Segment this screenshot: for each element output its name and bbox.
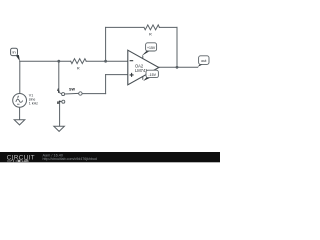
svg-text:-15V: -15V bbox=[148, 73, 156, 77]
switch SW bbox=[58, 91, 82, 103]
out terminal flag bbox=[198, 56, 209, 67]
wire: feedback right vertical bbox=[176, 27, 178, 67]
wire: op-amp output to out flag bbox=[159, 66, 198, 68]
wire: op-amp + input left bbox=[106, 74, 128, 76]
CircuitLab logo bbox=[7, 155, 35, 164]
watermark bar bbox=[0, 152, 220, 162]
wire: feedback top right segment bbox=[159, 26, 177, 28]
svg-text:out: out bbox=[201, 59, 207, 63]
svg-text:R: R bbox=[77, 66, 80, 70]
wire: feedback top left segment bbox=[106, 26, 144, 28]
junction dot: switch A node on input wire bbox=[57, 60, 60, 63]
svg-text:1 kHz: 1 kHz bbox=[29, 101, 38, 105]
+15V net flag bbox=[142, 43, 157, 56]
svg-text:http://circuitlab.com/c9d476jk: http://circuitlab.com/c9d476jkhbud bbox=[43, 157, 97, 161]
resistor R2 (feedback) bbox=[144, 25, 159, 30]
wire: feedback left vertical bbox=[105, 27, 107, 61]
junction dot: output/feedback node bbox=[176, 66, 179, 69]
ground (under switch B) bbox=[54, 126, 65, 131]
watermark text bbox=[43, 153, 97, 161]
ground (under V1) bbox=[14, 120, 25, 125]
wire: switch B down to ground bbox=[59, 102, 61, 126]
wire: R1 to op-amp inverting input bbox=[86, 60, 128, 62]
svg-text:+15V: +15V bbox=[147, 46, 156, 50]
-15V net flag bbox=[143, 70, 158, 81]
wire: + input vertical bbox=[105, 75, 107, 94]
minus input mark bbox=[130, 60, 134, 62]
svg-text:LAB: LAB bbox=[22, 159, 30, 163]
V- pin stub bbox=[142, 76, 144, 79]
junction dot: R1/feedback node bbox=[104, 60, 107, 63]
resistor R1 bbox=[71, 59, 87, 64]
voltage source V1 bbox=[13, 94, 27, 108]
svg-text:in: in bbox=[13, 50, 16, 55]
wire: switch A up to input wire bbox=[58, 61, 60, 91]
wire: V1 bottom to ground bbox=[19, 107, 21, 119]
wire: in node down to V1 bbox=[19, 61, 21, 93]
svg-text:SW: SW bbox=[69, 87, 75, 91]
op-amp OA2 bbox=[128, 50, 159, 85]
svg-text:R: R bbox=[149, 32, 152, 36]
V+ pin stub bbox=[142, 56, 144, 59]
plus input mark bbox=[130, 73, 134, 77]
wire: + input to switch common bbox=[82, 93, 106, 95]
in terminal flag bbox=[11, 48, 20, 61]
wire: in node to R1 bbox=[20, 60, 71, 62]
